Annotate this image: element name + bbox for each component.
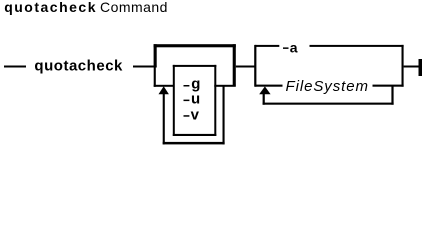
wire: entry horizontal into option box bbox=[154, 85, 174, 87]
wire: between groups bbox=[236, 66, 255, 68]
option box left edge bbox=[173, 65, 175, 136]
repeat arrowhead (FileSystem loop) bbox=[259, 86, 270, 94]
wire: exit horizontal from option box bbox=[214, 85, 236, 87]
options group bypass left vertical (thick) bbox=[154, 44, 157, 67]
wire: FileSystem repeat right vertical bbox=[391, 86, 393, 105]
wire: repeat return bottom bbox=[163, 142, 225, 145]
svg-text:quotacheck: quotacheck bbox=[34, 58, 123, 75]
options group bypass top line (thick) bbox=[154, 44, 236, 47]
wire: exit to terminator bbox=[404, 66, 419, 68]
repeat arrowhead (options loop) bbox=[159, 86, 169, 94]
option box top edge bbox=[173, 65, 217, 67]
choice branch left vertical bbox=[254, 45, 256, 87]
option box right edge bbox=[214, 65, 216, 136]
options group bypass right vertical (thick) bbox=[233, 44, 236, 85]
FileSystem line left part bbox=[255, 85, 283, 87]
wire: repeat return right vertical bbox=[223, 86, 225, 145]
wire: lead-in dash bbox=[4, 66, 26, 68]
FileSystem line right part bbox=[373, 85, 404, 87]
svg-text:Command: Command bbox=[100, 0, 167, 15]
terminator bar bbox=[419, 59, 423, 76]
-a branch line left part bbox=[255, 45, 279, 47]
svg-text:v: v bbox=[191, 106, 200, 123]
svg-text:quotacheck: quotacheck bbox=[4, 0, 96, 15]
wire: entry drop vertical bbox=[154, 66, 156, 87]
option flag -u bbox=[184, 100, 190, 102]
flag -a bbox=[283, 47, 289, 49]
option flag -v bbox=[184, 115, 190, 117]
option box bottom edge bbox=[173, 134, 217, 136]
svg-text:u: u bbox=[191, 91, 200, 108]
option flag -g bbox=[184, 85, 190, 87]
wire: repeat stem below arrowhead bbox=[263, 94, 265, 105]
-a branch line right part bbox=[310, 45, 404, 47]
wire: repeat return left vertical bbox=[163, 94, 165, 144]
choice branch right vertical bbox=[402, 45, 404, 87]
wire: keyword to options group bbox=[133, 66, 157, 68]
svg-text:a: a bbox=[290, 39, 298, 55]
wire: FileSystem repeat bottom bbox=[263, 103, 394, 105]
svg-text:FileSystem: FileSystem bbox=[286, 78, 369, 95]
